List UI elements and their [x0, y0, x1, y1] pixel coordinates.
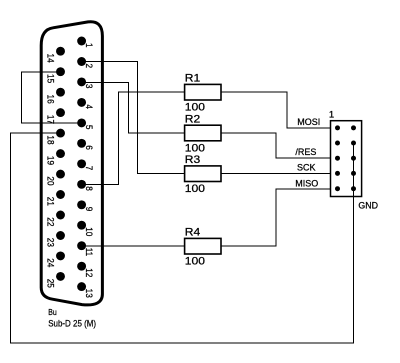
header pin 6 — [351, 156, 356, 161]
connector pin 21 — [56, 190, 65, 199]
connector X1 Sub-D 25 outline — [41, 22, 102, 305]
resistor R3 — [185, 166, 221, 182]
connector pin 6 — [77, 139, 86, 148]
connector pin 2 — [77, 57, 86, 66]
svg-text:1: 1 — [84, 43, 95, 48]
wire R1 to header pin1 MOSI — [221, 92, 338, 128]
resistor R1 — [185, 84, 221, 100]
connector pin 8 — [77, 180, 86, 189]
wire loopback pin15 to pin5 — [22, 72, 82, 123]
connector pin 14 — [56, 47, 65, 56]
header pin 1 — [335, 125, 340, 130]
svg-text:8: 8 — [84, 186, 95, 191]
svg-text:100: 100 — [185, 183, 205, 194]
connector pin 1 — [77, 37, 86, 46]
connector pin 17 — [56, 108, 65, 117]
header pin 4 — [351, 141, 356, 146]
svg-text:19: 19 — [45, 156, 56, 165]
svg-text:13: 13 — [84, 289, 95, 298]
svg-text:4: 4 — [84, 104, 95, 109]
wire GND pin18 to header — [10, 133, 353, 343]
connector pin 22 — [56, 211, 65, 220]
svg-text:3: 3 — [84, 84, 95, 89]
svg-text:/RES: /RES — [295, 147, 316, 157]
svg-text:MISO: MISO — [295, 178, 318, 188]
svg-text:9: 9 — [84, 207, 95, 212]
svg-text:R4: R4 — [185, 227, 201, 238]
svg-text:MOSI: MOSI — [297, 117, 320, 127]
svg-text:7: 7 — [84, 166, 95, 171]
svg-text:20: 20 — [45, 176, 56, 185]
wire pin3 to R2 (/RES) — [82, 82, 185, 133]
svg-text:10: 10 — [84, 227, 95, 236]
svg-text:2: 2 — [84, 64, 95, 69]
connector pin 13 — [77, 282, 86, 291]
svg-text:14: 14 — [45, 54, 56, 63]
wire R4 to header MISO — [221, 189, 338, 246]
connector pin 25 — [56, 272, 65, 281]
wire pin8 to R1 (MOSI) — [82, 92, 185, 184]
resistor R4 — [185, 238, 221, 254]
svg-text:100: 100 — [185, 143, 205, 154]
svg-text:1: 1 — [329, 109, 334, 120]
svg-text:18: 18 — [45, 135, 56, 144]
connector pin 20 — [56, 170, 65, 179]
connector pin 15 — [56, 67, 65, 76]
header SV1 ISP outline — [331, 121, 362, 197]
connector pin 11 — [77, 241, 86, 250]
svg-text:22: 22 — [45, 217, 56, 226]
svg-text:GND: GND — [358, 200, 378, 210]
connector pin 4 — [77, 98, 86, 107]
connector pin 18 — [56, 129, 65, 138]
wire R2 to header /RES — [221, 133, 338, 158]
svg-text:SCK: SCK — [297, 162, 316, 172]
connector pin 23 — [56, 231, 65, 240]
svg-text:R1: R1 — [185, 73, 200, 84]
svg-text:25: 25 — [45, 279, 56, 288]
svg-text:24: 24 — [45, 258, 56, 267]
svg-text:R3: R3 — [185, 155, 200, 166]
svg-text:15: 15 — [45, 74, 56, 83]
svg-text:R2: R2 — [185, 114, 200, 125]
svg-text:100: 100 — [185, 256, 205, 267]
connector pin 7 — [77, 159, 86, 168]
svg-text:5: 5 — [84, 125, 95, 130]
resistor R2 — [185, 125, 221, 141]
svg-text:17: 17 — [45, 115, 56, 124]
connector pin 5 — [77, 118, 86, 127]
connector pin 10 — [77, 221, 86, 230]
header pin 3 — [335, 141, 340, 146]
svg-text:6: 6 — [84, 145, 95, 150]
connector pin 12 — [77, 262, 86, 271]
wire pin11 to R4 (MISO) — [82, 245, 185, 247]
header pin 5 — [335, 156, 340, 161]
connector pin 3 — [77, 77, 86, 86]
wire pin2 to R3 (SCK) — [82, 61, 185, 173]
svg-text:16: 16 — [45, 95, 56, 104]
svg-text:11: 11 — [84, 248, 95, 257]
header pin 7 — [335, 171, 340, 176]
svg-text:Bu: Bu — [48, 308, 56, 318]
header pin 9 — [335, 186, 340, 191]
svg-text:12: 12 — [84, 268, 95, 277]
header pin 2 — [351, 125, 356, 130]
wire R3 to header SCK — [221, 173, 338, 175]
svg-text:Sub-D 25 (M): Sub-D 25 (M) — [48, 318, 96, 329]
connector pin 16 — [56, 88, 65, 97]
connector pin 9 — [77, 200, 86, 209]
header pin 8 — [351, 171, 356, 176]
svg-text:23: 23 — [45, 238, 56, 247]
svg-text:100: 100 — [185, 102, 205, 113]
connector pin 19 — [56, 149, 65, 158]
svg-text:21: 21 — [45, 197, 56, 206]
header GND bus (pins 4,6,8,10) — [353, 143, 355, 197]
connector pin 24 — [56, 251, 65, 260]
header pin 10 — [351, 186, 356, 191]
